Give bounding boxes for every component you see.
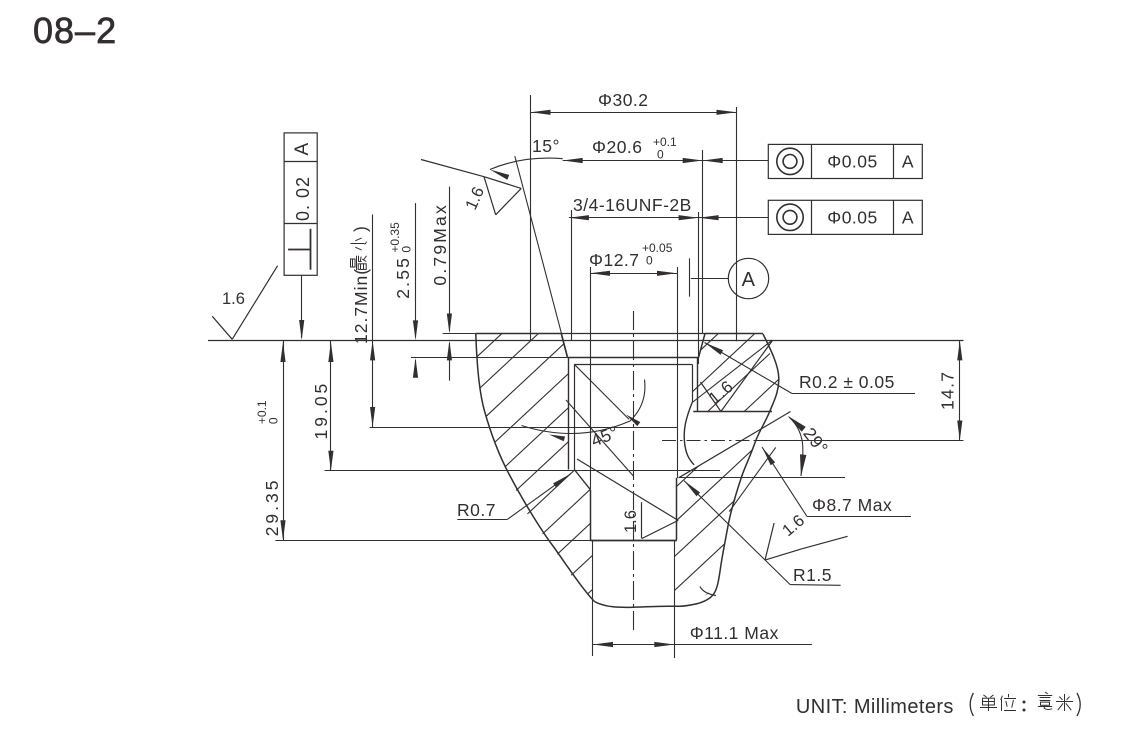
svg-text:0: 0 [646, 254, 653, 268]
svg-text:1.6: 1.6 [622, 510, 640, 533]
leader R0.7 [457, 519, 507, 521]
svg-text:19.05: 19.05 [311, 381, 331, 440]
dimension 0.79Max [449, 187, 451, 331]
svg-text:1.6: 1.6 [222, 290, 245, 308]
svg-text:): ) [351, 225, 371, 232]
svg-text:0.79Max: 0.79Max [430, 203, 450, 286]
svg-text:2.55: 2.55 [393, 256, 413, 299]
surface finish 1.6 (radius) [765, 523, 774, 560]
svg-text:Φ12.7: Φ12.7 [589, 250, 640, 270]
unit note text [970, 693, 973, 716]
thread 3/4-16UNF bore walls [568, 358, 570, 470]
dimension 19.05 depth [330, 341, 332, 471]
surface finish 1.6 (bore wall) [577, 459, 678, 520]
part outline: right break curve [680, 334, 779, 606]
svg-text:3/4-16UNF-2B: 3/4-16UNF-2B [573, 195, 692, 215]
svg-text:R0.2 ± 0.05: R0.2 ± 0.05 [799, 372, 895, 392]
leader R1.5 [684, 481, 790, 585]
seat cone line [679, 412, 791, 478]
vertical centerline [633, 311, 635, 633]
dimension Phi11.1 Max [593, 644, 812, 646]
svg-text:A: A [902, 208, 914, 228]
break line wiggle [700, 587, 716, 596]
svg-text:08–2: 08–2 [33, 10, 117, 51]
dimension Phi20.6 +0.1/0 [563, 160, 769, 162]
svg-text:Φ30.2: Φ30.2 [598, 90, 649, 110]
feature control frame concentricity Phi0.05 A (lower) [768, 200, 922, 234]
svg-text:A: A [742, 269, 756, 291]
svg-text:Φ0.05: Φ0.05 [827, 152, 878, 172]
svg-text:29.35: 29.35 [262, 478, 282, 537]
dimension Phi12.7 +0.05/0 [590, 273, 677, 275]
svg-text:15°: 15° [532, 136, 560, 156]
dimension 45 deg chamfer angle [574, 364, 629, 419]
12.7Min reference line [370, 427, 678, 429]
side axis centerline [662, 440, 756, 442]
dimension Phi30.2 [531, 112, 737, 114]
svg-text:UNIT: Millimeters: UNIT: Millimeters [796, 696, 954, 718]
svg-text:R1.5: R1.5 [793, 565, 832, 585]
datum A symbol [689, 258, 691, 296]
feature control frame concentricity Phi0.05 A (upper) [768, 144, 922, 178]
svg-text:A: A [902, 152, 914, 172]
svg-text:14.7: 14.7 [938, 371, 958, 410]
gauge plane line [208, 340, 964, 342]
svg-text:12.7Min(: 12.7Min( [351, 268, 371, 344]
svg-text:0: 0 [267, 417, 281, 424]
counterbore seat line [411, 357, 568, 359]
surface finish 1.6 (left) [212, 316, 232, 339]
svg-text:0: 0 [400, 246, 414, 253]
Phi11.1 bore walls / extension lines [592, 540, 594, 656]
dimension 12.7Min depth [372, 215, 374, 428]
svg-text:Φ11.1 Max: Φ11.1 Max [690, 623, 779, 643]
svg-text:Φ8.7 Max: Φ8.7 Max [812, 495, 892, 515]
19.05 reference line [325, 470, 721, 472]
Phi12.7 bore walls [590, 490, 592, 540]
leader Phi8.7 Max [762, 447, 807, 517]
part outline: left break curve [476, 334, 595, 602]
dimension 3/4-16UNF-2B thread [569, 217, 768, 219]
surface finish 1.6 (seat cone) [701, 382, 721, 412]
svg-text:0. 02: 0. 02 [293, 176, 313, 221]
svg-text:0: 0 [657, 148, 664, 162]
part outline: bottom break curve [595, 602, 681, 608]
dimension 14.7 [959, 340, 961, 440]
drill cone line [566, 400, 633, 476]
dimension 29.35 +0.1/0 depth [283, 341, 285, 540]
leader R0.2 +-0.05 [705, 343, 793, 394]
surface finish 1.6 (entry cone) [484, 177, 521, 189]
svg-text:Φ20.6: Φ20.6 [592, 137, 643, 157]
svg-text:Φ0.05: Φ0.05 [827, 208, 878, 228]
dimension 29 deg seat angle [789, 417, 803, 476]
svg-text:A: A [292, 142, 313, 155]
dimension 2.55 +0.35/0 [415, 203, 417, 337]
perpendicularity tolerance frame 0.02 A [284, 133, 317, 275]
svg-text:R0.7: R0.7 [457, 500, 496, 520]
15 deg entry cone edges [561, 334, 567, 358]
part top face line [476, 333, 561, 335]
bore step line [275, 540, 590, 542]
